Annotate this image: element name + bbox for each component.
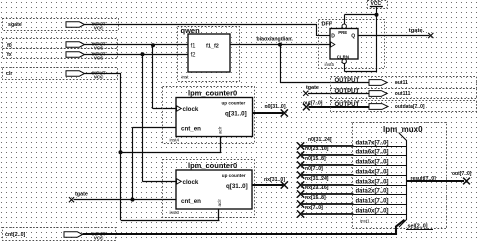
svg-text:tgate: tgate — [75, 191, 88, 197]
svg-text:tgate.: tgate. — [409, 28, 425, 34]
pin label data1x[7..0] — [356, 199, 389, 205]
wire VCC to DFF CLRN — [345, 15, 377, 72]
svg-text:n0[7..0]: n0[7..0] — [305, 166, 323, 172]
wire bus counter inst4 q to n0[31..0] — [253, 112, 284, 114]
node nx[15..8] net label — [297, 195, 326, 208]
wire clr to counter inst4 aclr — [121, 137, 221, 153]
pin label data0x[7..0] — [356, 209, 389, 215]
input pin sgate — [3, 19, 119, 31]
node nx[31..24] net label — [297, 176, 329, 189]
svg-text:PRE: PRE — [338, 30, 347, 35]
svg-text:f1_f2: f1_f2 — [206, 44, 219, 50]
svg-text:sgate: sgate — [8, 22, 22, 28]
svg-text:sel[2..0]: sel[2..0] — [408, 224, 428, 230]
svg-text:OUTPUT: OUTPUT — [335, 89, 360, 95]
junction clr branch — [119, 150, 123, 154]
svg-text:VCC: VCC — [94, 235, 104, 240]
svg-text:outdata[7..0]: outdata[7..0] — [395, 104, 425, 110]
wire bus nx[31..24] to mux data3x — [302, 184, 407, 187]
node n0[23..16] net label — [297, 146, 329, 159]
svg-text:aclr: aclr — [217, 199, 222, 207]
wire fx to qwen f2 — [85, 54, 189, 56]
wire bus counter inst3 q to nx[31..0] — [252, 184, 283, 186]
output pin out111 — [331, 89, 477, 99]
pin label data6x[7..0] — [356, 150, 389, 156]
svg-text:f0: f0 — [7, 43, 12, 49]
svg-text:clock: clock — [183, 179, 199, 186]
wire sgate to DFF D input — [85, 24, 331, 36]
wire counter inst3 aclr pin stub — [218, 209, 220, 220]
wire tgate to out111 output pin — [308, 93, 369, 95]
power VCC symbol — [368, 1, 388, 15]
svg-text:nx[31..24]: nx[31..24] — [305, 176, 329, 182]
wire f0 to qwen f1 — [85, 44, 189, 46]
wire clr vertical — [85, 73, 122, 220]
svg-text:inst3: inst3 — [170, 210, 180, 215]
node tgate net label left — [69, 191, 88, 202]
svg-text:cnt[2..0]: cnt[2..0] — [5, 232, 26, 238]
svg-text:inst1: inst1 — [360, 219, 370, 224]
node out[7..0] net label mid — [303, 100, 323, 110]
wire bus n0[15..8] to mux data5x — [302, 164, 407, 167]
svg-text:D: D — [331, 34, 335, 40]
wire bus n0[23..16] to mux data6x — [302, 154, 407, 157]
wire fx to counter inst3 clock — [143, 54, 177, 182]
svg-text:up counter: up counter — [222, 173, 246, 178]
svg-text:data6x[7..0]: data6x[7..0] — [356, 150, 389, 156]
wire VCC to DFF PRE — [345, 15, 377, 25]
wire DFF Q to tgate — [358, 35, 430, 37]
component lpm_counter0 U-inst4 — [163, 87, 255, 144]
svg-text:up counter: up counter — [222, 100, 246, 105]
svg-text:fx: fx — [7, 52, 12, 58]
component lpm_mux0 inst1 — [353, 123, 447, 229]
wire tgate to counter inst4 cnt_en — [133, 127, 177, 199]
wire bus mux result to out[7..0] — [407, 180, 465, 182]
svg-text:nx[23..16]: nx[23..16] — [305, 185, 329, 191]
svg-text:cnt_en: cnt_en — [181, 126, 201, 133]
svg-text:lpm_mux0: lpm_mux0 — [383, 125, 423, 134]
node out[7..0] net label right — [452, 171, 472, 184]
svg-text:VCC: VCC — [94, 45, 104, 50]
output pin outdata[7..0] — [331, 101, 477, 112]
node n0[15..8] net label — [297, 156, 326, 169]
svg-text:data2x[7..0]: data2x[7..0] — [356, 189, 389, 195]
wire clr to counter inst3 aclr — [121, 209, 220, 221]
svg-text:cnt_en: cnt_en — [181, 198, 201, 205]
svg-text:Q: Q — [351, 34, 355, 40]
node n0[31..0] net label — [265, 104, 288, 116]
svg-text:clr: clr — [6, 71, 12, 77]
wire qwen output to DFF clock — [230, 44, 330, 46]
component lpm_counter0 U-inst3 — [163, 160, 255, 218]
node biaoxiangdian net label — [257, 36, 294, 42]
svg-text:n0[31..0]: n0[31..0] — [265, 104, 286, 110]
wire bus n0[7..0] to mux data4x — [302, 174, 407, 177]
svg-text:nx[7..0]: nx[7..0] — [305, 205, 323, 211]
svg-text:f1: f1 — [191, 44, 197, 50]
wire tgate to counter inst3 cnt_en — [74, 199, 177, 201]
svg-text:lpm_counter0: lpm_counter0 — [188, 161, 237, 170]
svg-text:inst: inst — [182, 75, 190, 80]
svg-text:q[31..0]: q[31..0] — [225, 110, 247, 117]
input pin cnt[2..0] — [3, 228, 116, 241]
svg-text:nx[15..8]: nx[15..8] — [305, 195, 326, 201]
svg-text:n0[15..8]: n0[15..8] — [305, 156, 326, 162]
svg-text:VCC: VCC — [94, 25, 104, 30]
wire bus n0[31..24] to mux data7x — [302, 145, 407, 148]
input pin clr — [3, 68, 118, 80]
svg-text:data5x[7..0]: data5x[7..0] — [356, 160, 389, 166]
svg-text:lpm_counter0: lpm_counter0 — [188, 88, 237, 97]
node n0[7..0] net label — [297, 166, 323, 179]
svg-text:inst5: inst5 — [325, 62, 335, 67]
svg-text:OUTPUT: OUTPUT — [335, 78, 360, 84]
svg-text:biaoxiangdian.: biaoxiangdian. — [257, 36, 294, 42]
wire f0 to counter inst4 clock — [153, 45, 177, 109]
svg-text:tgate: tgate — [306, 85, 319, 91]
flip-flop DFF inst5 — [319, 20, 385, 69]
wire bus cnt[2..0] to mux sel — [83, 220, 405, 235]
svg-text:VCC: VCC — [94, 55, 104, 60]
pin label data5x[7..0] — [356, 160, 389, 166]
svg-text:out[7..0]: out[7..0] — [452, 171, 472, 177]
wire bus nx[7..0] to mux data0x — [302, 213, 407, 216]
pin label data2x[7..0] — [356, 189, 389, 195]
output pin out11 — [331, 77, 477, 89]
junction biaoxiangdian — [278, 43, 282, 47]
svg-text:inst4: inst4 — [170, 138, 180, 143]
node n0[31..24] net label — [297, 137, 332, 150]
svg-text:n0[23..16]: n0[23..16] — [305, 146, 329, 152]
svg-text:data0x[7..0]: data0x[7..0] — [356, 209, 389, 215]
node tgate net label top — [409, 28, 434, 38]
node nx[31..0] net label — [264, 177, 288, 189]
pin label data7x[7..0] — [356, 141, 389, 147]
svg-text:VCC: VCC — [94, 74, 104, 79]
svg-text:CLRN: CLRN — [337, 54, 349, 59]
junction tgate branch — [131, 198, 135, 202]
wire bus nx[15..8] to mux data1x — [302, 203, 407, 206]
pin label data4x[7..0] — [356, 170, 389, 176]
svg-text:f2: f2 — [191, 53, 197, 59]
input pin fx — [3, 49, 118, 61]
pin label sel[2..0] — [406, 224, 433, 230]
svg-text:data1x[7..0]: data1x[7..0] — [356, 199, 389, 205]
svg-text:data7x[7..0]: data7x[7..0] — [356, 141, 389, 147]
svg-text:q[31..0]: q[31..0] — [226, 183, 248, 190]
junction f0 branch — [151, 43, 155, 47]
svg-text:out111: out111 — [395, 91, 411, 97]
wire counter inst4 aclr pin stub — [220, 137, 222, 153]
junction VCC — [375, 13, 379, 17]
wire bus nx[23..16] to mux data2x — [302, 193, 407, 196]
svg-text:clock: clock — [183, 106, 199, 113]
wire biaoxiangdian to out11 output pin — [280, 45, 369, 84]
node nx[23..16] net label — [297, 185, 329, 198]
node tgate net label mid — [303, 85, 319, 96]
svg-text:aclr: aclr — [218, 126, 223, 134]
svg-text:out[7..0]: out[7..0] — [303, 100, 323, 106]
svg-text:DFF: DFF — [322, 21, 333, 27]
svg-text:data4x[7..0]: data4x[7..0] — [356, 170, 389, 176]
junction fx branch — [141, 52, 145, 56]
pin label data3x[7..0] — [356, 180, 389, 186]
svg-text:OUTPUT: OUTPUT — [335, 102, 360, 108]
input pin f0 — [3, 39, 118, 51]
node nx[7..0] net label — [297, 205, 323, 218]
svg-text:out11: out11 — [395, 80, 408, 86]
wire bus out[7..0] to outdata output pin — [309, 106, 370, 108]
pin label result[7..0] — [411, 176, 437, 182]
svg-text:n0[31..24]: n0[31..24] — [308, 137, 332, 143]
svg-text:data3x[7..0]: data3x[7..0] — [356, 180, 389, 186]
component qwen (inst) — [178, 26, 240, 82]
